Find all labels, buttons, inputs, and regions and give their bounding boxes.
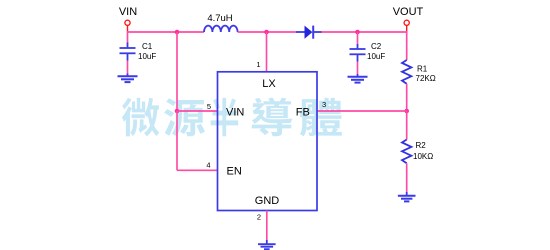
ground (R2)	[398, 192, 416, 201]
svg-text:VOUT: VOUT	[393, 6, 424, 18]
svg-text:C1: C1	[142, 42, 153, 51]
svg-text:4: 4	[206, 161, 210, 170]
diode	[296, 26, 322, 39]
wire LX pin 1	[266, 32, 268, 72]
port VOUT	[404, 20, 409, 31]
inductor 4.7uH	[204, 26, 238, 32]
svg-text:2: 2	[257, 213, 261, 222]
IC body (converter)	[218, 72, 318, 211]
watermark 微源半導體	[122, 98, 342, 137]
svg-text:FB: FB	[296, 107, 310, 119]
svg-text:10uF: 10uF	[138, 52, 156, 61]
junction C2 branch	[355, 30, 360, 35]
svg-text:R1: R1	[417, 65, 428, 74]
resistor R2	[402, 140, 411, 164]
svg-text:LX: LX	[262, 78, 276, 90]
wire VIN branch down to pin5	[176, 32, 178, 111]
wire diode to VOUT corner	[322, 31, 407, 33]
wire R1 to FB node	[406, 84, 408, 111]
ground (U1 pin 2)	[258, 240, 276, 249]
wire C1 to ground	[127, 61, 129, 74]
svg-text:4.7uH: 4.7uH	[207, 13, 232, 24]
junction VIN net / C branch	[175, 30, 180, 35]
wire R2 to ground	[406, 163, 408, 192]
wire to pin 4 (EN)	[177, 169, 218, 171]
svg-text:VIN: VIN	[226, 107, 244, 119]
wire GND pin 2	[266, 211, 268, 241]
wire down to pin 4 level	[176, 111, 178, 170]
svg-text:VIN: VIN	[119, 6, 137, 18]
svg-text:GND: GND	[255, 195, 280, 207]
capacitor C1	[120, 43, 136, 61]
svg-text:72KΩ: 72KΩ	[416, 74, 436, 83]
svg-text:C2: C2	[371, 42, 382, 51]
junction pin5/pin4 branch	[175, 109, 180, 114]
svg-text:3: 3	[322, 100, 326, 109]
svg-text:10uF: 10uF	[367, 52, 385, 61]
svg-text:EN: EN	[227, 166, 242, 178]
wire VOUT down to R1	[406, 31, 408, 60]
wire FB pin 3	[317, 110, 407, 112]
junction FB node	[404, 109, 409, 114]
svg-text:1: 1	[256, 60, 260, 69]
wire C2 to ground	[357, 62, 359, 75]
ground (C1)	[118, 74, 138, 83]
port VIN	[125, 20, 130, 31]
wire to pin 5 (VIN)	[177, 110, 218, 112]
resistor R1	[402, 60, 411, 84]
wire VIN port down to C1	[127, 31, 129, 44]
wire inductor to diode	[238, 31, 296, 33]
ground (C2)	[348, 74, 368, 83]
svg-text:10KΩ: 10KΩ	[413, 152, 433, 161]
svg-text:R2: R2	[416, 141, 427, 150]
capacitor C2	[357, 32, 359, 44]
junction LX branch	[264, 30, 269, 35]
wire FB node down to R2	[406, 111, 408, 140]
wire VIN rail (top left horizontal)	[128, 31, 205, 33]
svg-text:5: 5	[207, 102, 211, 111]
